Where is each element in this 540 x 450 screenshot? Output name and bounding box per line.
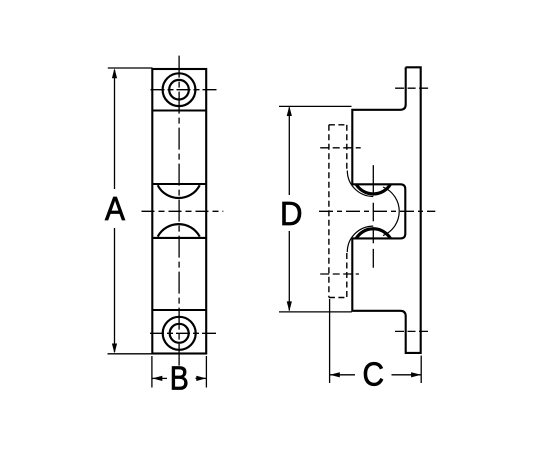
dim C arrow right (411, 372, 421, 377)
dim A bottom extension line (108, 353, 153, 355)
upper groove thick arc (356, 184, 390, 194)
dim A line upper segment (114, 70, 116, 189)
dim B line right segment (196, 377, 207, 379)
dim B arrow left (152, 376, 162, 381)
dim B right extension line (205, 356, 207, 388)
lower hidden hole centerline (320, 273, 359, 275)
dim A line lower segment (114, 228, 116, 352)
bottom hole inner circle (170, 324, 189, 343)
front view body outline (152, 69, 206, 354)
vertical centerline side view (372, 165, 374, 268)
right thin arc (383, 187, 399, 236)
dim C left extension line (329, 299, 331, 383)
dim A top extension line (108, 67, 153, 69)
bottom hole horizontal centerline (150, 332, 218, 334)
dim C line right segment (392, 374, 422, 376)
dim A arrow up (112, 68, 117, 78)
section line upper-middle (152, 183, 206, 185)
svg-text:C: C (363, 356, 385, 393)
dim B left extension line (151, 356, 153, 388)
bottom flange hole centerline (395, 330, 431, 332)
svg-text:A: A (105, 190, 125, 227)
dim D line lower segment (288, 231, 290, 311)
hidden connector top (329, 124, 347, 126)
dim C arrow left (330, 372, 340, 377)
bottom hole outer circle (163, 317, 196, 350)
upper saddle arc (158, 185, 200, 198)
vertical centerline front view (178, 56, 180, 366)
dim A arrow down (112, 344, 117, 354)
top flange hole centerline (395, 87, 431, 89)
dim D arrow down (287, 301, 292, 311)
section line bottom (152, 309, 206, 311)
lower saddle arc (158, 224, 200, 236)
top hole horizontal centerline (151, 89, 217, 91)
dim C right extension line (420, 356, 422, 384)
hidden line right lower segment (346, 253, 348, 298)
dim D top extension line (279, 105, 352, 107)
middle horizontal centerline side view (319, 210, 435, 212)
lower thin arc (347, 226, 373, 252)
hidden line left (328, 125, 330, 298)
top hole outer circle (163, 73, 196, 106)
section line lower-middle (152, 237, 206, 239)
upper thin arc (347, 171, 373, 197)
lower groove thick arc (356, 229, 390, 239)
upper hidden hole centerline (320, 147, 361, 149)
dim D line upper segment (288, 108, 290, 196)
hidden connector bottom (329, 297, 347, 299)
side view body outline (352, 67, 420, 353)
svg-text:D: D (280, 195, 303, 232)
section line top (152, 109, 206, 111)
svg-text:B: B (170, 360, 189, 397)
top hole inner circle (169, 80, 189, 100)
dim B arrow right (196, 376, 206, 381)
dim D arrow up (287, 106, 292, 116)
hidden line right upper segment (346, 125, 348, 170)
dim C line left segment (330, 374, 355, 376)
dim D bottom extension line (279, 311, 352, 313)
middle horizontal centerline front view (142, 210, 224, 212)
dim B line left segment (152, 377, 167, 379)
